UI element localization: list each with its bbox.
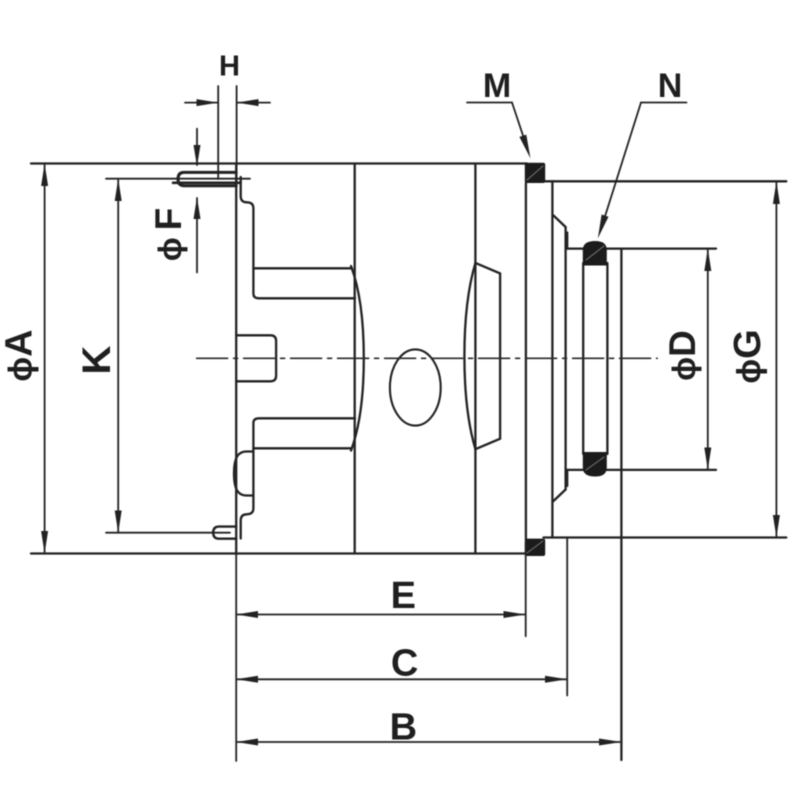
N leader arrow bbox=[598, 215, 609, 239]
B right arrow bbox=[599, 739, 621, 746]
H left extension line bbox=[217, 86, 219, 179]
N leader line bbox=[601, 103, 641, 230]
svg-text:C: C bbox=[391, 643, 418, 685]
section boundary left bbox=[354, 164, 356, 554]
svg-text:N: N bbox=[658, 67, 683, 105]
svg-text:H: H bbox=[219, 51, 240, 83]
C right arrow bbox=[545, 676, 567, 683]
M leader line bbox=[512, 103, 528, 150]
phi-G dimension line bbox=[775, 183, 777, 536]
H dimension line left part bbox=[185, 102, 217, 104]
K dimension line bbox=[117, 180, 119, 532]
spigot bottom edge with phi-D extension bbox=[567, 469, 716, 471]
E dimension line bbox=[238, 614, 525, 616]
phi-G bottom arrow bbox=[773, 515, 780, 538]
svg-text:ϕG: ϕG bbox=[727, 329, 769, 383]
phi-G top arrow bbox=[773, 181, 780, 204]
gland chamfer top bbox=[554, 216, 566, 228]
K bottom extension line bbox=[106, 532, 230, 534]
B dimension line bbox=[238, 741, 621, 743]
gland chamfer bottom bbox=[554, 490, 566, 502]
svg-text:ϕD: ϕD bbox=[662, 330, 703, 381]
svg-text:B: B bbox=[390, 707, 417, 749]
M seal bottom (hatched) bbox=[525, 539, 545, 556]
flange boss face bottom bbox=[241, 418, 355, 538]
phi-D bottom arrow bbox=[704, 448, 711, 470]
E right extension line bbox=[525, 542, 527, 636]
phi-A dimension line bbox=[44, 165, 46, 552]
gear pocket bottom line bbox=[253, 447, 352, 449]
o-ring groove right wall bbox=[606, 263, 608, 454]
left bore lens arc bbox=[351, 266, 364, 451]
spigot right face with B extension line bbox=[620, 249, 622, 760]
C left arrow bbox=[236, 676, 258, 683]
port ellipse bbox=[390, 349, 441, 425]
right cover bottom edge with phi-G extension bbox=[544, 536, 787, 538]
svg-text:E: E bbox=[391, 575, 416, 617]
C right extension line bbox=[566, 538, 568, 696]
phi-A bottom arrow bbox=[41, 531, 48, 554]
N seal bottom (o-ring section) bbox=[583, 452, 607, 477]
M leader tail bbox=[467, 102, 512, 104]
phi-D top arrow bbox=[704, 249, 711, 271]
H right extension line bbox=[236, 86, 238, 181]
N leader tail bbox=[641, 102, 687, 104]
stud bottom bbox=[213, 527, 236, 539]
gland face bbox=[564, 227, 566, 490]
phi-F dimension line lower bbox=[196, 198, 198, 273]
N seal top (o-ring section) bbox=[583, 241, 607, 266]
phi-F top arrow bbox=[194, 145, 201, 167]
phi-F bottom arrow bbox=[194, 197, 201, 219]
phi-A top arrow bbox=[41, 164, 48, 187]
right cover top edge with phi-G extension bbox=[544, 180, 787, 182]
centerline bbox=[197, 357, 658, 359]
spigot root face top bbox=[566, 233, 568, 249]
phi-F dimension line upper bbox=[196, 129, 198, 165]
body top edge with phi-A top extension line bbox=[31, 162, 527, 164]
K top extension line bbox=[106, 178, 250, 180]
flange slot bulge bbox=[234, 452, 253, 496]
E right arrow bbox=[504, 611, 526, 618]
left flange face bbox=[235, 164, 237, 554]
M leader arrow bbox=[519, 135, 530, 159]
section boundary right bbox=[474, 164, 476, 554]
E left arrow bbox=[236, 611, 258, 618]
spigot root face bottom bbox=[566, 470, 568, 486]
svg-text:M: M bbox=[483, 67, 511, 105]
gear pocket top line bbox=[253, 267, 352, 269]
svg-text:ϕA: ϕA bbox=[0, 329, 41, 381]
B left arrow bbox=[236, 739, 258, 746]
right cover left edge bbox=[551, 181, 553, 537]
o-ring groove left wall bbox=[582, 263, 584, 454]
spigot top edge with phi-D extension bbox=[567, 247, 716, 249]
body bottom edge with phi-A bottom extension line bbox=[31, 552, 527, 554]
stud top bbox=[178, 172, 236, 185]
H left arrow bbox=[197, 99, 219, 106]
right bore lens arc bbox=[464, 263, 475, 449]
svg-text:K: K bbox=[75, 345, 119, 374]
M seal top (hatched) bbox=[525, 163, 545, 183]
phi-D dimension line bbox=[707, 250, 709, 469]
wear plate trapezoid bbox=[475, 263, 500, 449]
stud top middle line bbox=[173, 182, 241, 185]
E C B left extension line bbox=[235, 554, 237, 761]
C dimension line bbox=[238, 678, 567, 680]
K bottom arrow bbox=[115, 511, 122, 533]
H dimension line right part bbox=[238, 102, 270, 104]
middle plate right edge bbox=[525, 183, 527, 540]
K top arrow bbox=[115, 179, 122, 201]
flange boss face top bbox=[241, 177, 355, 298]
H right arrow bbox=[237, 99, 259, 106]
svg-text:ϕF: ϕF bbox=[148, 201, 189, 262]
shaft stub bbox=[236, 335, 276, 381]
